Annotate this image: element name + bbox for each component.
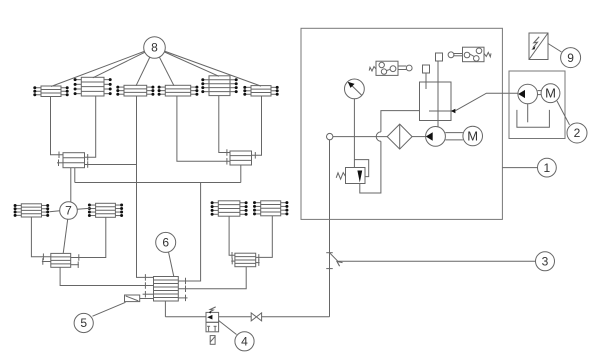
wire: leader label 1 to enclosure — [502, 167, 537, 169]
distributor block T3 — [116, 85, 154, 96]
relief valve — [336, 160, 369, 184]
wire: relief return to tank with crossover hop — [360, 111, 420, 193]
distributor block RCc — [235, 253, 256, 267]
wire: restrictor to M6 — [140, 298, 154, 300]
wire: leader label 7 to C7L — [50, 211, 60, 212]
pump P2 — [518, 84, 538, 104]
component 5 restrictor box — [125, 295, 140, 302]
svg-text:4: 4 — [241, 335, 248, 349]
level switch S2 — [448, 47, 491, 62]
svg-text:M: M — [545, 86, 556, 101]
wire: pump-motor coupling — [445, 133, 463, 140]
svg-text:5: 5 — [80, 316, 87, 330]
level switch S1 — [369, 61, 412, 75]
wire: T1 to left secondary block — [51, 97, 64, 159]
wire: SL bottom output to label 7 — [70, 168, 72, 202]
shutoff valve — [251, 313, 261, 321]
motor M1 — [463, 126, 483, 146]
wire: P2 coupling — [538, 91, 542, 95]
wire: SL left dead-end stub — [57, 160, 63, 167]
distributor block RCa — [211, 201, 248, 216]
wire: shutoff valve to power unit supply line — [262, 316, 330, 318]
wire: main pressure line — [333, 136, 426, 138]
solenoid valve 4 — [206, 307, 219, 344]
wire: junction down to main block M6 top-left input — [137, 165, 154, 281]
distributor block C7R — [88, 203, 123, 217]
wire: C7C bottom output to main block M6 — [60, 267, 153, 288]
aux pump enclosure box 2 — [509, 71, 565, 139]
distributor block C7L — [14, 204, 50, 217]
distributor block T5 — [201, 76, 237, 96]
wire: leader label 9 — [548, 44, 562, 53]
node 7 (label circle) — [60, 202, 78, 220]
wire: SL right output to vertical junction — [85, 161, 137, 168]
svg-text:8: 8 — [151, 41, 158, 55]
wire: leader label 4 to valve — [219, 321, 237, 335]
distributor block C7C — [51, 253, 71, 267]
wire: leader label 2 — [557, 101, 570, 125]
wire: C7C left dead-end stub — [42, 258, 51, 265]
svg-text:9: 9 — [567, 51, 574, 65]
wire: M6 right dead-end stub — [178, 295, 187, 302]
node 1 (label circle) — [538, 158, 557, 177]
wire: T6 to right secondary block — [252, 96, 262, 159]
wire: T5 to right secondary block — [219, 96, 230, 156]
wire: RCc right dead-end stub — [256, 259, 260, 266]
wire: C7L down to lower block C7C — [31, 217, 50, 260]
level float rod A — [423, 65, 430, 89]
motor M2 — [541, 84, 560, 103]
wire: T2 to left secondary block — [85, 96, 96, 161]
svg-text:7: 7 — [65, 204, 72, 218]
wire: return line into tank — [448, 93, 518, 113]
pressure gauge — [345, 79, 365, 99]
distributor block T2 — [74, 77, 112, 96]
wire: T4 to right secondary block — [177, 96, 230, 165]
node 4 (label circle) — [235, 332, 254, 351]
svg-text:3: 3 — [542, 255, 549, 269]
wire: leader label 5 to restrictor — [93, 302, 126, 316]
wire: M6 left dead-end stub — [143, 291, 154, 298]
power unit enclosure box 1 — [301, 28, 502, 219]
wire: leader label 7 to C7R — [77, 208, 90, 209]
secondary distributor block SR — [230, 151, 252, 165]
node 9 (label circle) — [561, 48, 581, 68]
distributor block T4 — [158, 85, 199, 96]
node 3 (label circle) — [536, 252, 555, 271]
wire: RCb down to lower block RCc — [256, 216, 273, 261]
distributor block RCb — [253, 201, 288, 216]
svg-text:6: 6 — [162, 236, 169, 250]
wire: gauge stem / relief supply — [353, 99, 355, 168]
wire: suction line from tank to pump — [437, 61, 439, 127]
wire: leader label 7 to C7C — [63, 219, 67, 253]
level float rod B — [436, 53, 443, 61]
wire: T3 down to junction — [136, 96, 138, 165]
distributor block T6 — [243, 86, 278, 96]
secondary distributor block SL — [63, 153, 85, 168]
wire: M6 bottom output — [165, 301, 206, 317]
wire: fan lines from label 8 to top distributor blocks — [51, 48, 261, 87]
distributor block T1 — [33, 86, 68, 97]
wire: SR bottom output — [240, 165, 242, 183]
wire: valve 4 to shutoff valve — [219, 316, 252, 318]
electric switch indicator 9 — [529, 33, 548, 60]
node 8 (label circle) — [144, 37, 166, 59]
svg-text:2: 2 — [574, 126, 581, 140]
wire: long manifold line to main block M6 top-right input — [75, 183, 241, 285]
wire: C7R down to lower block C7C — [71, 217, 106, 260]
wire: C7C right dead-end stub — [71, 261, 79, 268]
wire: RCc bottom output to main block M6 — [178, 267, 246, 292]
wire: RCc left dead-end stub — [231, 258, 235, 265]
aux tank — [517, 110, 550, 127]
wire: P2 drop line — [527, 104, 529, 123]
node 2 (label circle) — [567, 123, 587, 143]
pump P1 — [426, 126, 446, 146]
wire: SL second bottom output — [74, 168, 76, 183]
node: outlet port circle — [327, 133, 333, 139]
wire: power unit supply down-line — [326, 140, 333, 317]
reservoir tank — [420, 82, 452, 121]
wire: leader label 6 to M6 — [169, 252, 174, 277]
wire: branch line to label 3 — [330, 253, 536, 267]
node 6 (label circle) — [156, 232, 176, 252]
filter — [387, 124, 412, 149]
svg-text:1: 1 — [544, 161, 551, 175]
wire: RCa down to lower block RCc — [229, 216, 235, 258]
svg-text:M: M — [467, 129, 478, 144]
main distributor block M6 — [154, 277, 179, 302]
node 5 (label circle) — [74, 313, 93, 332]
